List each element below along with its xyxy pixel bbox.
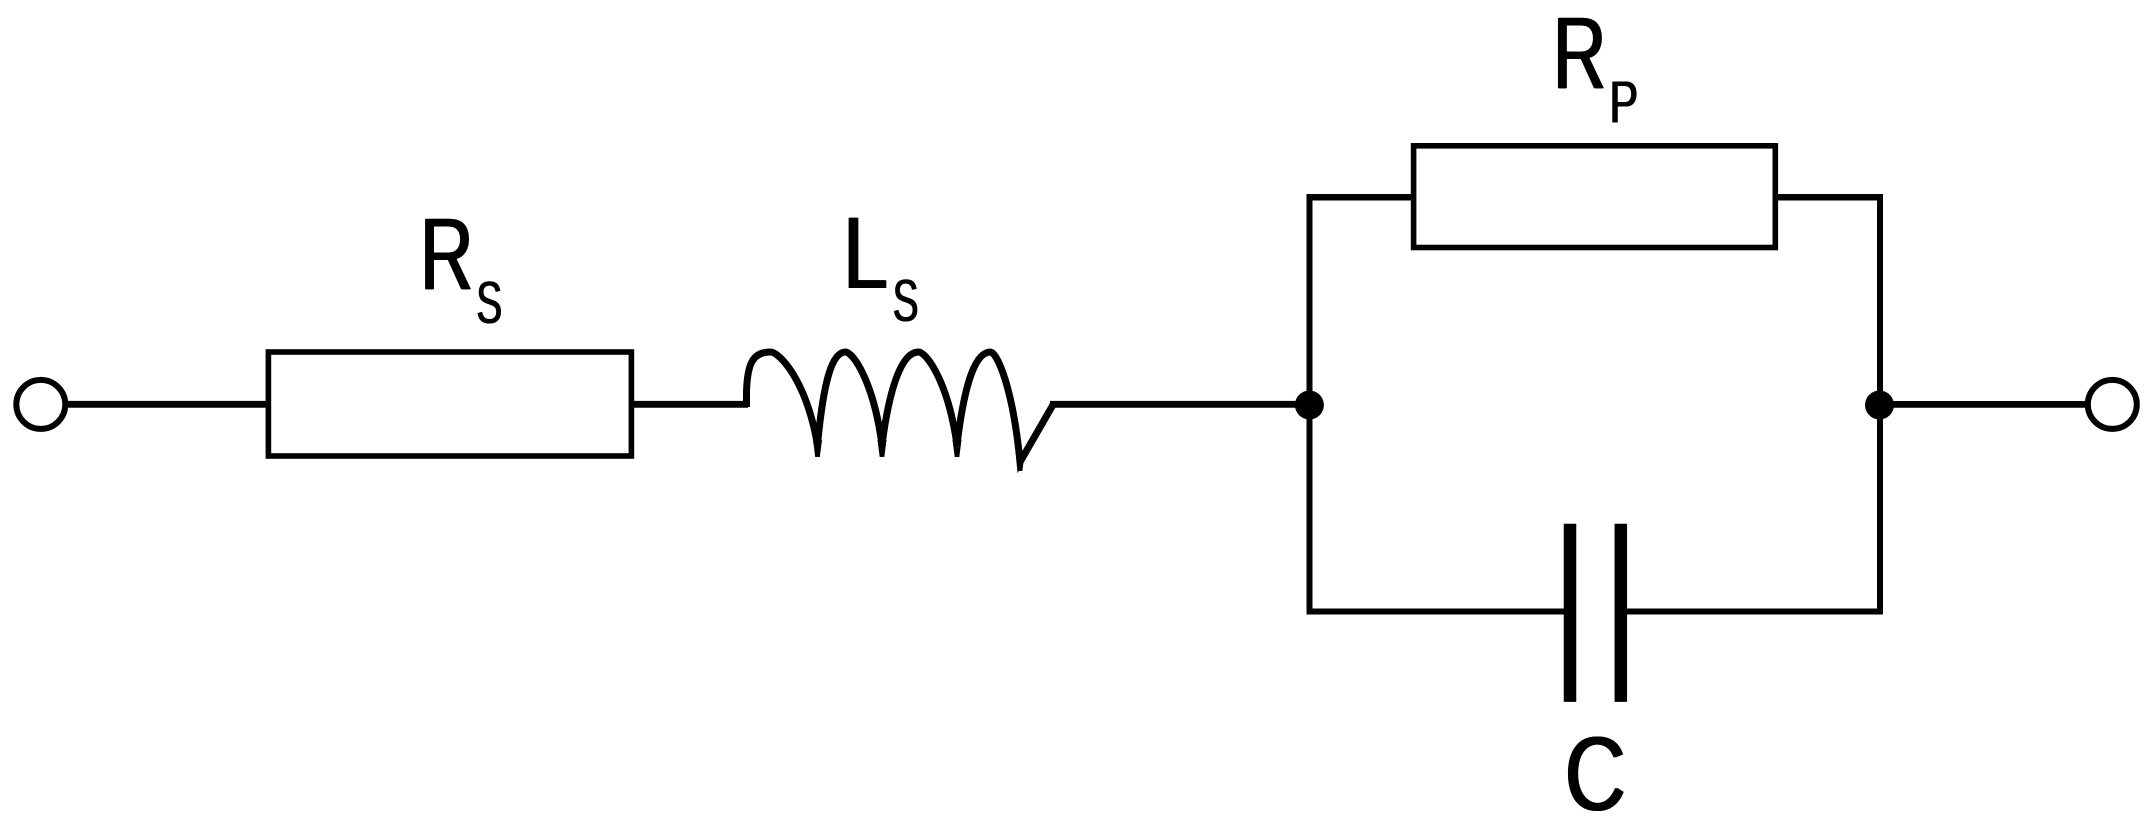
wire Ls to node A — [1050, 401, 1300, 408]
coil dip tip spike 1 — [813, 440, 822, 457]
coil dip tip spike 3 — [953, 440, 962, 457]
node A dot (left junction) — [1295, 391, 1324, 420]
label C — [1564, 716, 1627, 826]
svg-text:R: R — [421, 196, 474, 310]
coil dip tip spike 2 — [878, 440, 887, 457]
svg-text:R: R — [1554, 0, 1607, 110]
label Rs — [419, 196, 503, 336]
resistor Rp box — [1414, 146, 1776, 248]
svg-text:S: S — [893, 268, 919, 334]
bottom wire left segment to capacitor — [1307, 609, 1573, 615]
label Rp — [1552, 0, 1639, 135]
wire node B to right terminal — [1880, 401, 2086, 408]
right terminal circle — [2088, 380, 2137, 429]
top wire of loop — [1307, 194, 1884, 201]
svg-text:P: P — [1610, 69, 1639, 135]
coil end tip spike 4 — [1016, 453, 1025, 471]
wire left terminal to Rs — [65, 401, 270, 408]
capacitor C left plate — [1564, 524, 1577, 702]
node B dot (right junction) — [1865, 391, 1894, 420]
capacitor C right plate — [1615, 524, 1628, 702]
svg-text:L: L — [844, 197, 889, 310]
resistor Rs box — [268, 352, 631, 456]
label Ls — [842, 197, 919, 334]
right vertical wire of loop — [1877, 194, 1883, 615]
parallel loop left vertical wire — [1307, 197, 1313, 611]
bottom wire right segment from capacitor — [1619, 609, 1883, 615]
wire Rs to Ls — [631, 401, 748, 408]
svg-text:C: C — [1566, 716, 1627, 826]
inductor Ls coil — [747, 352, 1054, 462]
left terminal circle — [16, 380, 65, 429]
svg-text:S: S — [477, 270, 503, 336]
